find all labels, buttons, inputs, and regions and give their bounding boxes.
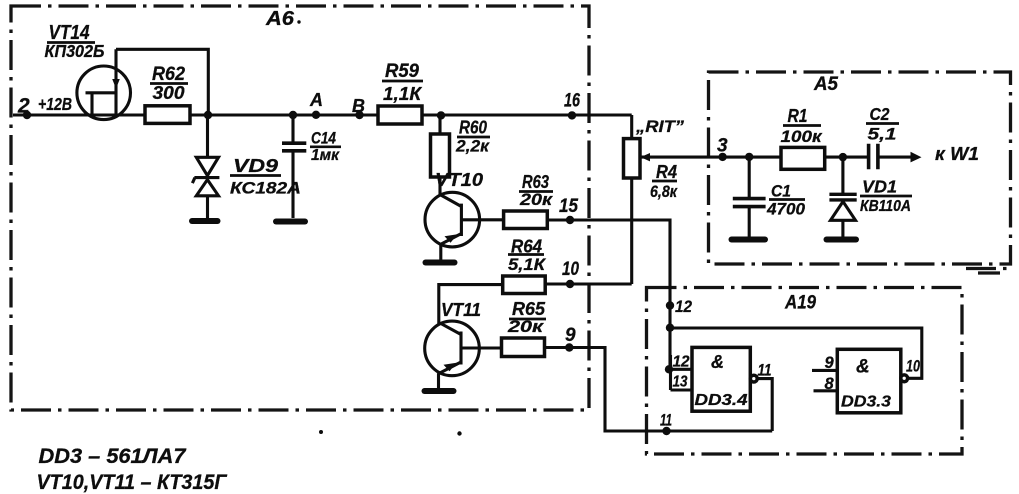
svg-text:А6: А6 [265,8,295,30]
svg-text:15: 15 [559,196,578,217]
svg-text:6,8к: 6,8к [650,182,678,201]
label R60 [455,118,490,156]
svg-text:4700: 4700 [766,200,806,219]
wire VT11 base to R65 [461,346,503,349]
wire C1 branch [748,157,751,237]
wire DD3.3 input stubs 9/8 [812,370,837,390]
node 11 [660,411,672,436]
resistor R63 [504,211,548,229]
svg-text:10: 10 [906,357,920,376]
svg-text:9: 9 [565,325,576,346]
svg-text:100к: 100к [781,127,824,146]
svg-text:10: 10 [562,259,579,280]
gate DD3.4 [692,347,757,411]
svg-text:„RIT”: „RIT” [635,117,685,136]
zener VD9 [192,157,219,196]
svg-text:КС182А: КС182А [230,180,301,198]
svg-text:2,2к: 2,2к [455,137,490,156]
varicap VD1 [829,153,856,220]
svg-text:к W1: к W1 [935,144,979,164]
svg-text:20к: 20к [507,317,545,336]
wire R4 top lead [630,115,633,139]
resistor R64 [503,276,546,294]
node after R62 [204,111,212,119]
resistor R1 [781,147,825,169]
svg-text:VT10: VT10 [435,170,483,190]
svg-text:А19: А19 [784,293,816,314]
label VT14 [45,22,105,61]
ground VT10 [426,260,455,266]
svg-text:DD3.3: DD3.3 [841,394,891,411]
svg-text:&: & [711,352,724,372]
wire VT14 drain loop [116,49,208,115]
svg-text:R59: R59 [385,60,419,82]
wire VD9 branch [206,115,209,219]
svg-text:12: 12 [675,297,692,316]
label R65 [507,299,546,336]
wire R1 to C2 [825,156,868,159]
svg-text:&: & [856,357,870,378]
block border A5 [709,72,1011,273]
svg-text:КП302Б: КП302Б [45,41,105,61]
wire VT10 base to R63 [461,218,503,221]
wire R64 right to node 10 [545,282,632,285]
ground C1 [732,237,766,243]
gate DD3.3 [837,349,907,413]
svg-text:А: А [309,90,323,110]
ground C14 [276,219,305,225]
wire R60 branch [438,115,441,196]
wire DD3.4 input stubs 12/13 [671,355,693,390]
label A6 [265,8,301,30]
ground VT11 [425,388,454,394]
svg-text:8: 8 [825,375,835,393]
label C1 [766,182,806,219]
capacitor C1 [733,153,766,207]
wire VD1 branch [841,157,844,237]
svg-text:С2: С2 [870,104,890,124]
node 12 [666,297,693,316]
junction DD3.4 inputs [665,365,673,373]
pin 9 [565,325,576,352]
svg-text:300: 300 [153,83,185,103]
junction feedback [666,324,674,332]
svg-text:А5: А5 [813,74,838,95]
label R62 [150,63,188,103]
speck [319,430,323,434]
svg-text:С14: С14 [311,129,336,148]
label VD9 [230,155,301,198]
svg-text:1,1К: 1,1К [383,84,423,104]
svg-text:С1: С1 [771,182,791,201]
wire R4 wiper to node 3 to R1 [640,156,781,159]
pin 3 [717,136,728,162]
svg-text:12: 12 [673,354,690,371]
resistor R59 [378,106,422,124]
resistor R60 [431,134,450,177]
node A [309,90,323,119]
capacitor C14 [282,143,306,151]
pin 10 [562,259,579,288]
resistor R62 [145,106,190,124]
svg-text:+12В: +12В [38,94,72,114]
svg-text:16: 16 [564,91,580,112]
wire +12V bus [13,113,632,116]
label R64 [508,237,547,275]
svg-text:КВ110А: КВ110А [860,198,911,215]
potentiometer R4 [624,139,651,178]
transistor VT14 [77,49,131,119]
ground VD9 [192,218,218,224]
transistor VT11 [425,321,480,376]
label C14 [310,129,341,165]
svg-text:VT10,VT11 – КТ315Г: VT10,VT11 – КТ315Г [37,471,228,494]
svg-text:R65: R65 [512,299,546,319]
pin 16 [564,91,580,120]
wire VT10 emitter [439,244,442,259]
svg-text:VD1: VD1 [862,177,897,197]
capacitor C2 [869,144,878,170]
svg-text:13: 13 [673,374,688,391]
svg-text:VT11: VT11 [441,300,481,320]
block border A6 [11,6,589,410]
svg-text:11: 11 [758,361,772,380]
resistor R65 [502,338,545,357]
node pin2 [23,111,31,119]
label R4 [650,162,678,201]
speck [457,431,461,435]
svg-text:9: 9 [825,354,835,372]
wire DD3.3 output feedback to DD3.4 inputs [670,328,922,378]
label R59 [382,60,423,104]
svg-text:R62: R62 [152,63,185,85]
svg-text:5,1: 5,1 [868,125,897,144]
svg-text:R1: R1 [788,106,808,126]
node B [352,96,365,119]
transistor VT10 [425,192,480,247]
svg-text:1мк: 1мк [311,147,340,164]
label VD1 [860,177,912,216]
label R1 [781,106,824,146]
svg-text:DD3 – 561ЛА7: DD3 – 561ЛА7 [39,445,187,468]
svg-text:11: 11 [660,411,672,430]
block border A19 [647,288,963,455]
svg-text:5,1К: 5,1К [508,255,547,274]
arrow to W1 [911,152,922,163]
ground VD1 [827,237,857,243]
wire DD3.4 output to node 11 [754,379,772,431]
pin 15 [559,196,578,224]
svg-text:R60: R60 [459,118,487,138]
node C14 [289,111,297,119]
node after R59 [437,111,445,119]
wire R4 bottom lead [630,178,633,284]
svg-text:VD9: VD9 [233,155,279,176]
label C2 [866,104,899,144]
wire R63 to node 15 to A19 vertical [547,220,670,369]
svg-text:20к: 20к [519,190,554,209]
wire C14 branch [291,115,294,218]
wire R64 left to VT11 collector [439,285,503,324]
svg-text:DD3.4: DD3.4 [695,392,748,409]
svg-text:R63: R63 [522,172,549,192]
label R63 [519,172,554,209]
svg-text:R4: R4 [656,162,677,182]
wire C2 to W1 arrow [878,156,911,159]
wire VT11 emitter [437,373,440,388]
wire R65 to node 9 to node 11 [543,348,772,432]
